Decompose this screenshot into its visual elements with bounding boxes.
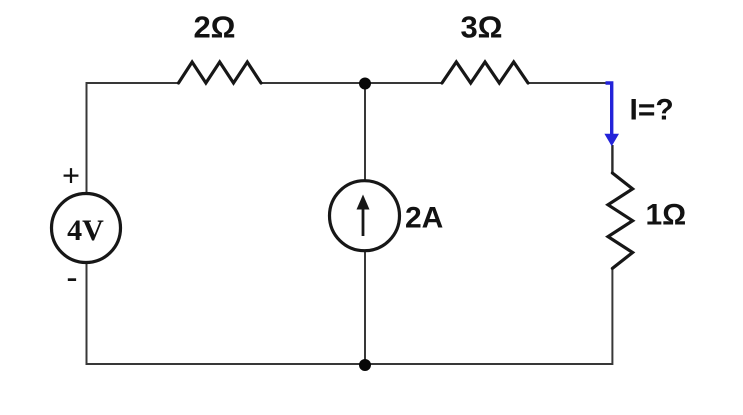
- wire top-right segment: [528, 82, 613, 84]
- svg-text:2Ω: 2Ω: [193, 10, 235, 45]
- wire bottom: [87, 363, 613, 365]
- wire left vertical lower: [86, 263, 88, 366]
- node top (junction dot): [359, 78, 371, 90]
- resistor 1ohm (vertical zigzag): [608, 173, 633, 268]
- svg-text:-: -: [67, 258, 78, 294]
- resistor 2ohm (zigzag): [179, 62, 262, 83]
- wire top-left segment: [87, 82, 179, 84]
- wire right vertical lower: [611, 268, 613, 365]
- svg-text:I=?: I=?: [630, 94, 674, 127]
- current source 2A circle: [330, 181, 400, 251]
- node bottom (junction dot): [359, 359, 371, 371]
- current arrow I (blue): [604, 83, 619, 146]
- svg-text:4V: 4V: [67, 214, 104, 247]
- svg-text:2A: 2A: [405, 202, 443, 235]
- resistor 3ohm (zigzag): [442, 62, 528, 83]
- wire left vertical upper: [86, 82, 88, 194]
- svg-text:+: +: [62, 157, 80, 193]
- wire right vertical upper (below current arrow): [611, 145, 613, 173]
- voltage source V1 circle: [52, 194, 121, 263]
- svg-text:1Ω: 1Ω: [646, 199, 687, 232]
- wire middle vertical lower: [364, 251, 366, 365]
- wire top-middle segment: [261, 82, 442, 84]
- svg-text:3Ω: 3Ω: [460, 10, 502, 45]
- current source arrow: [357, 195, 370, 237]
- wire middle vertical upper: [364, 83, 366, 181]
